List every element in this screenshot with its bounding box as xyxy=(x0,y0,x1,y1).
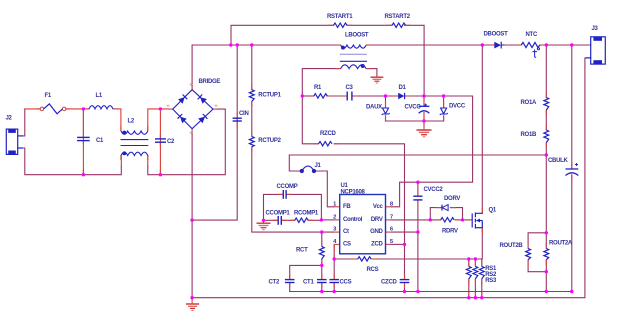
resistor RCTUP1 xyxy=(249,90,254,102)
svg-text:D1: D1 xyxy=(399,85,407,91)
svg-text:RS1: RS1 xyxy=(485,266,497,272)
lead bridge vertices xyxy=(191,86,193,90)
svg-text:CZCD: CZCD xyxy=(381,279,397,285)
wire CZCD bottom xyxy=(404,283,406,292)
node RCTUP top on bus xyxy=(250,43,253,46)
capacitor CT2 xyxy=(285,280,295,283)
wire ROUT2B/ROUT2A network xyxy=(528,233,546,292)
svg-text:DAUX: DAUX xyxy=(366,104,382,110)
svg-text:2: 2 xyxy=(333,214,336,220)
wire LBOOST secondary right to ground xyxy=(366,69,377,76)
svg-text:GND: GND xyxy=(370,229,383,235)
node comp network ground xyxy=(262,219,265,222)
resistor RS2 xyxy=(473,266,478,278)
svg-text:RDRV: RDRV xyxy=(442,228,458,234)
lead C1 xyxy=(82,110,84,138)
lead R1 C3 D1 xyxy=(308,95,314,97)
lead DBOOST NTC xyxy=(489,44,495,46)
lead RZCD xyxy=(313,143,319,145)
connector J3 xyxy=(586,37,606,64)
node CS / RCS / CCS xyxy=(333,257,336,260)
svg-text:ROUT2B: ROUT2B xyxy=(500,243,524,249)
lead U1 pin stubs xyxy=(334,206,340,208)
capacitor CVCC polarized xyxy=(419,106,430,113)
svg-text:RSTART1: RSTART1 xyxy=(327,14,353,20)
svg-text:R1: R1 xyxy=(314,85,322,91)
ground at bridge bottom xyxy=(186,298,199,311)
node divider return on gnd rail xyxy=(545,290,548,293)
ground at CVCC xyxy=(417,121,432,137)
svg-text:CT2: CT2 xyxy=(269,279,280,285)
plus mark CVCC xyxy=(424,104,427,107)
zener DAUX xyxy=(382,108,390,115)
svg-text:RCOMP1: RCOMP1 xyxy=(294,210,319,216)
resistor RS1 xyxy=(466,266,471,278)
capacitor CCOMP xyxy=(283,190,286,199)
U1 pin names xyxy=(343,204,383,248)
lead L1 xyxy=(84,108,89,110)
node C1 bottom xyxy=(82,173,85,176)
svg-text:RO1A: RO1A xyxy=(521,100,537,106)
svg-text:RCTUP1: RCTUP1 xyxy=(258,93,281,99)
jumper J1 xyxy=(300,166,315,172)
resistor RO1A xyxy=(544,98,549,111)
node RS1 bottom xyxy=(467,296,470,299)
resistor RS3 xyxy=(479,266,484,278)
wire C1 branch xyxy=(82,109,84,175)
resistor ROUT2B xyxy=(526,249,531,260)
connector J2 xyxy=(6,129,23,154)
wire Q1 drain to boost node xyxy=(481,45,483,213)
wire FB feedback line y=155 xyxy=(289,155,546,171)
transformer LBOOST xyxy=(340,45,367,69)
wire main bus y=45 xyxy=(192,45,591,90)
wire CIN branch xyxy=(192,45,237,220)
ground at CCOMP1 xyxy=(257,220,271,229)
fuse F1 xyxy=(40,107,66,111)
node boost switch (drain/DBOOST) xyxy=(481,43,484,46)
svg-text:7: 7 xyxy=(390,214,393,220)
svg-text:L1: L1 xyxy=(96,93,103,99)
svg-text:ROUT2A: ROUT2A xyxy=(549,241,573,247)
lead RCTUP1 xyxy=(251,84,253,90)
svg-text:J3: J3 xyxy=(592,26,599,32)
svg-text:DRV: DRV xyxy=(371,217,383,223)
svg-text:RCS: RCS xyxy=(367,267,379,273)
diode DBOOST xyxy=(494,42,504,49)
lead CS down / RCS xyxy=(333,244,335,252)
wire CCS/CS branch xyxy=(333,247,335,292)
svg-text:CS: CS xyxy=(343,241,351,247)
node C1 top xyxy=(82,107,85,110)
svg-text:CT1: CT1 xyxy=(303,279,314,285)
wire CS pin4 down xyxy=(333,244,335,246)
wire RCTUP branch to Ct pin xyxy=(252,45,334,232)
svg-text:NCP1608: NCP1608 xyxy=(341,189,366,195)
node RS3 bottom xyxy=(480,296,483,299)
wire analog ground rail y=291.5 xyxy=(290,291,572,293)
svg-text:C3: C3 xyxy=(346,85,354,91)
lead F1 xyxy=(37,108,41,110)
wire CT2 branch y=265.4 xyxy=(290,265,322,291)
wire top startup rail y=25.3 xyxy=(231,25,424,96)
node CVCC2 bottom on gnd rail xyxy=(416,290,419,293)
wire RS1 RS2 RS3 verticals xyxy=(469,259,482,298)
wire C2 branch xyxy=(159,109,161,175)
lead Q1 gate/drain/source xyxy=(465,219,472,221)
wire CBULK branch xyxy=(571,45,573,292)
svg-text:RCT: RCT xyxy=(296,248,308,254)
bridge pin cross marks xyxy=(167,83,218,134)
zener DVCC xyxy=(440,108,448,115)
node RS1 top xyxy=(467,257,470,260)
node ROUT2 top xyxy=(545,231,548,234)
wire bridge bottom to ground bus xyxy=(191,133,193,298)
resistor ROUT2A xyxy=(544,249,549,260)
lead RS1 RS2 RS3 xyxy=(468,260,470,266)
node ROUT2 bottom xyxy=(545,270,548,273)
wire RCT branch xyxy=(321,232,323,291)
resistor RSTART1 xyxy=(334,23,348,27)
resistor RSTART2 xyxy=(392,23,406,27)
capacitor CCOMP1 xyxy=(278,216,281,225)
svg-text:RO1B: RO1B xyxy=(521,132,537,138)
wire DAUX CVCC DVCC bottom line y=121 xyxy=(386,96,444,128)
svg-text:Vcc: Vcc xyxy=(373,204,384,210)
inductor L1 xyxy=(89,106,113,109)
node RS2 top xyxy=(474,257,477,260)
transistor Q1 MOSFET xyxy=(472,213,482,229)
node control pin xyxy=(320,218,323,221)
capacitor C1 xyxy=(77,137,90,140)
svg-text:RS2: RS2 xyxy=(485,272,497,278)
wire Q1 source to RS bar xyxy=(481,228,483,259)
resistor RDRV xyxy=(441,218,455,222)
node aux winding / R1 / RZCD xyxy=(301,94,304,97)
lead RO1A RO1B xyxy=(545,92,547,98)
svg-text:BRIDGE: BRIDGE xyxy=(199,79,221,85)
svg-text:NTC: NTC xyxy=(526,32,538,38)
lead RCTUP2 xyxy=(251,131,253,137)
node GND pin / CVCC2 xyxy=(416,230,419,233)
resistor R1 xyxy=(314,94,328,98)
lead C2 xyxy=(159,133,161,139)
capacitor CZCD xyxy=(400,280,410,283)
resistor RZCD xyxy=(319,142,333,146)
choke L2 xyxy=(121,131,149,156)
wire CVCC2 vertical xyxy=(417,182,419,291)
wire L2 bottom-right to bridge right vertex xyxy=(147,156,149,166)
node RS2 bottom xyxy=(474,296,477,299)
node C2 bottom xyxy=(159,173,162,176)
diode DORV xyxy=(442,205,448,211)
svg-text:CIN: CIN xyxy=(239,111,249,117)
svg-text:C2: C2 xyxy=(167,139,175,145)
lead CIN xyxy=(236,112,238,118)
resistor RCOMP1 xyxy=(295,218,309,222)
capacitor C2 xyxy=(155,139,166,142)
svg-text:U1: U1 xyxy=(341,183,349,189)
svg-text:DBOOST: DBOOST xyxy=(484,32,509,38)
wire J2 lower to bottom rail xyxy=(23,148,122,175)
wire ZCD pin5 stub wire xyxy=(391,243,404,245)
svg-text:CVCC: CVCC xyxy=(405,105,422,111)
lead DORV RDRV xyxy=(436,207,442,209)
node output divider top xyxy=(545,43,548,46)
capacitor CBULK polarized xyxy=(566,163,579,176)
diode D1 xyxy=(398,93,404,99)
svg-text:DVCC: DVCC xyxy=(449,103,466,109)
wire LBOOST secondary left to R1 node and RZCD xyxy=(302,69,340,144)
capacitor CT1 xyxy=(317,280,327,283)
node CT1 bottom on gnd rail xyxy=(320,290,323,293)
wire RCS line y=259 xyxy=(334,258,482,260)
wire RZCD to ZCD vertical xyxy=(334,144,404,279)
capacitor C3 xyxy=(347,92,352,101)
op-amp U1 NCP1608 box xyxy=(340,195,386,254)
node main ground xyxy=(190,296,193,299)
lead CCOMP CCOMP1 RCOMP1 xyxy=(278,193,283,195)
node DRV / DORV left xyxy=(429,218,432,221)
lead CT2 CT1 CCS CZCD xyxy=(289,274,291,279)
wire L2 top-right to bridge left xyxy=(148,109,169,131)
U1 pin numbers xyxy=(333,201,394,245)
svg-text:LBOOST: LBOOST xyxy=(345,33,369,39)
wire control pin2 line xyxy=(321,219,334,221)
resistor RCT xyxy=(319,247,324,259)
wire J2 to F1/L1 line xyxy=(23,109,25,136)
svg-text:Ct: Ct xyxy=(343,229,349,235)
node CIN return xyxy=(190,218,193,221)
svg-text:CCOMP: CCOMP xyxy=(277,184,298,190)
thermistor NTC xyxy=(521,42,539,47)
node ZCD pin xyxy=(403,243,406,246)
resistor RCS xyxy=(358,257,372,261)
bridge rectifier BRIDGE xyxy=(173,90,213,129)
svg-text:Q1: Q1 xyxy=(489,208,497,214)
svg-text:FB: FB xyxy=(343,204,351,210)
node CIN top on bus xyxy=(236,43,239,46)
wire ground bus y=297.7 xyxy=(192,58,591,298)
svg-text:J2: J2 xyxy=(6,116,13,122)
lead RCT xyxy=(321,241,323,247)
wire J1 right to FB pin1 xyxy=(316,171,334,207)
svg-text:RSTART2: RSTART2 xyxy=(385,14,411,20)
lead CVCC2 xyxy=(417,190,419,196)
resistor RCTUP2 xyxy=(249,137,254,147)
svg-text:RS3: RS3 xyxy=(485,278,497,284)
lead DAUX DVCC CVCC xyxy=(385,101,387,107)
svg-text:RCTUP2: RCTUP2 xyxy=(258,138,281,144)
svg-text:L2: L2 xyxy=(128,118,135,124)
node startup tap on bus xyxy=(229,43,232,46)
svg-text:DORV: DORV xyxy=(444,196,460,202)
svg-text:Control: Control xyxy=(343,217,363,223)
lead LBOOST xyxy=(335,44,341,46)
svg-text:CCS: CCS xyxy=(340,279,352,285)
node feedback tap xyxy=(545,153,548,156)
node VCC line / CVCC2 top xyxy=(416,181,419,184)
lead RSTART2 xyxy=(387,24,393,26)
capacitor CIN xyxy=(233,118,242,121)
lead CBULK xyxy=(571,162,573,169)
resistor RO1B xyxy=(544,130,549,143)
wire GND pin6 line xyxy=(391,231,418,233)
node gate / DORV right xyxy=(461,218,464,221)
lead L2 xyxy=(120,126,122,131)
svg-text:CBULK: CBULK xyxy=(548,158,569,164)
node DAUX top xyxy=(384,94,387,97)
node CZCD bottom on gnd rail xyxy=(403,290,406,293)
node CBULK top xyxy=(570,43,573,46)
svg-text:F1: F1 xyxy=(45,93,52,99)
capacitor CCS xyxy=(329,280,339,283)
wire Vcc pin8 riser xyxy=(391,182,418,207)
node VCC / CVCC top xyxy=(422,94,425,97)
svg-text:ZCD: ZCD xyxy=(371,241,383,247)
capacitor CVCC2 xyxy=(413,196,422,200)
wire R1/C3/D1 vcc line y=96 xyxy=(302,96,472,182)
node Ct pin / RCT top xyxy=(320,230,323,233)
svg-text:J1: J1 xyxy=(315,163,322,169)
svg-text:RZCD: RZCD xyxy=(320,131,336,137)
svg-text:CVCC2: CVCC2 xyxy=(424,187,444,193)
wire RO1A/RO1B divider xyxy=(545,45,547,233)
ground at LBOOST secondary xyxy=(371,76,384,84)
lead ROUT2B ROUT2A xyxy=(527,243,529,249)
svg-text:CCOMP1: CCOMP1 xyxy=(266,210,291,216)
wire compensation box xyxy=(264,194,322,220)
node C2 top xyxy=(159,107,162,110)
node CBULK bottom on gnd rail xyxy=(570,290,573,293)
wire DRV line and DORV loop xyxy=(391,208,471,220)
node RCT bottom / CT1 top xyxy=(320,264,323,267)
node DVCC top xyxy=(442,94,445,97)
svg-text:C1: C1 xyxy=(96,138,104,144)
node CVCC bottom / ground xyxy=(422,119,425,122)
lead RSTART1 xyxy=(328,24,334,26)
node CCS bottom on gnd rail xyxy=(333,290,336,293)
